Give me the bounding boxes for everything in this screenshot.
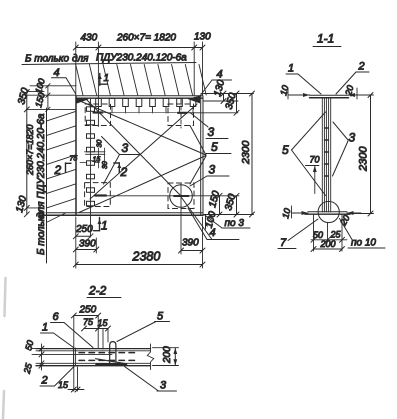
svg-text:260×7= 1820: 260×7= 1820 — [116, 33, 176, 44]
2-2 dim extension verticals — [74, 316, 108, 349]
title 2-2 — [87, 284, 121, 298]
svg-text:Б только: Б только — [25, 54, 69, 65]
panel right edge — [201, 96, 203, 215]
svg-text:20: 20 — [338, 213, 352, 228]
svg-text:6: 6 — [53, 311, 60, 323]
small dims 100 150 top-left — [46, 84, 50, 112]
2-2 gusset wedge — [96, 359, 127, 365]
2-2 label 6 — [51, 311, 94, 348]
svg-text:по 10: по 10 — [351, 238, 376, 249]
svg-text:130: 130 — [194, 32, 211, 43]
1-1 detail circle — [318, 201, 339, 222]
svg-text:260×7=1820: 260×7=1820 — [25, 124, 35, 176]
bottom-right dashed bolt box — [168, 183, 194, 209]
section mark 1 top — [98, 73, 109, 85]
1-1 label 2 — [336, 61, 369, 95]
scan artifact bottom-left upper — [5, 278, 6, 316]
svg-text:4: 4 — [217, 69, 223, 81]
svg-text:ПДУ230.240.120-6а: ПДУ230.240.120-6а — [96, 53, 187, 64]
2-2 left plate end verticals — [74, 348, 76, 366]
svg-text:1: 1 — [101, 219, 108, 233]
circle horizontal centerline — [95, 195, 203, 197]
svg-text:5: 5 — [157, 311, 164, 323]
2-2 hidden bolt dashes — [79, 353, 138, 361]
2-2 label 5 — [117, 311, 170, 342]
top-right box centerline — [180, 99, 182, 128]
diagonal bottom-left box to 5-point — [79, 156, 206, 213]
svg-text:250: 250 — [79, 305, 97, 316]
svg-text:для: для — [72, 54, 89, 65]
1-1 dim 10 left top — [288, 88, 310, 99]
2-2 label 3 — [125, 367, 177, 392]
svg-text:5: 5 — [211, 140, 218, 154]
1-1 label 5 bracket — [282, 112, 326, 196]
2-2 dim 25 — [39, 360, 44, 371]
svg-text:2300: 2300 — [358, 146, 370, 172]
svg-text:390: 390 — [182, 238, 199, 249]
svg-text:25: 25 — [330, 230, 342, 240]
svg-text:4: 4 — [54, 67, 60, 79]
panel top edge — [76, 96, 203, 99]
svg-text:7: 7 — [280, 237, 287, 249]
anchor circle bottom-right — [170, 185, 193, 208]
svg-text:3: 3 — [160, 380, 167, 392]
1-1 label 7 — [278, 219, 318, 249]
left edge plates column — [87, 107, 95, 206]
svg-text:75: 75 — [83, 317, 94, 327]
title 1-1 — [313, 32, 341, 47]
svg-text:3: 3 — [122, 141, 129, 155]
label 3 top-right — [190, 113, 228, 140]
svg-text:50: 50 — [23, 339, 35, 351]
bottom dim 250 — [73, 224, 93, 239]
top plates centerlines — [99, 107, 194, 114]
right top dims 130 350 — [201, 91, 254, 115]
svg-text:350: 350 — [16, 86, 31, 105]
svg-text:2: 2 — [358, 61, 365, 73]
svg-text:1: 1 — [42, 322, 48, 334]
svg-text:15: 15 — [58, 380, 69, 390]
1-1 bottom dim line 10 20 — [292, 206, 362, 218]
left hatch band — [46, 111, 76, 222]
svg-text:200: 200 — [320, 239, 336, 249]
svg-text:390: 390 — [79, 239, 96, 250]
svg-text:10: 10 — [280, 207, 292, 219]
bottom-left dashed bolt box — [85, 183, 111, 207]
label 3 center — [102, 137, 141, 185]
label 5 right — [206, 140, 231, 154]
2-2 dim 50 — [32, 344, 44, 359]
left dim chain 350 1820 130 — [24, 86, 76, 217]
panel bottom edge — [42, 213, 203, 215]
svg-text:15: 15 — [93, 157, 101, 164]
top-left corner weld wedge — [77, 99, 89, 103]
svg-text:2: 2 — [41, 375, 48, 387]
svg-text:430: 430 — [81, 33, 98, 44]
svg-text:30: 30 — [102, 161, 109, 169]
1-1 dim 200 — [311, 239, 345, 252]
svg-text:2300: 2300 — [240, 140, 252, 165]
bottom dim 390 left — [73, 238, 99, 253]
1-1 dim 20 right top — [349, 88, 363, 99]
2-2 beam mid line — [36, 353, 112, 355]
svg-text:2-2: 2-2 — [88, 284, 107, 298]
top note text — [22, 53, 196, 65]
svg-text:30: 30 — [97, 140, 104, 148]
small dims at 4th left plate 75 15 30 30 — [80, 148, 105, 168]
faint weld line across panel — [102, 112, 176, 114]
svg-text:5: 5 — [282, 143, 289, 157]
svg-text:2380: 2380 — [132, 250, 161, 264]
top edge plates row — [96, 99, 196, 107]
right 2300 dimension — [204, 91, 255, 217]
panel left edge — [75, 96, 77, 215]
scan artifact bottom-left lower — [3, 391, 4, 419]
2-2 dim 15 — [58, 367, 84, 392]
svg-text:3: 3 — [208, 125, 215, 139]
svg-text:150: 150 — [207, 189, 222, 208]
label 4 top-left — [52, 67, 76, 94]
top-right corner weld wedge — [189, 96, 200, 102]
long diagonal TL to circle — [86, 99, 181, 196]
label 3 lower-right — [190, 163, 229, 187]
label 4 top-right — [200, 69, 232, 97]
top dimension line 430 260x7 130 — [73, 45, 205, 50]
left plates centerline — [90, 99, 92, 237]
left note vertical line — [46, 108, 48, 263]
svg-text:100: 100 — [33, 77, 47, 94]
svg-text:для ПДУ230.240.20-6а: для ПДУ230.240.20-6а — [36, 113, 47, 218]
1-1 dims 50 25 — [311, 215, 347, 251]
label 4 bottom-right — [182, 198, 240, 240]
svg-text:3: 3 — [209, 163, 216, 177]
bottom dim 390 right — [179, 238, 206, 254]
2-2 beam second line — [36, 350, 151, 352]
1-1 top flange — [310, 95, 349, 98]
2-2 dim 250 — [71, 305, 100, 319]
svg-text:3: 3 — [349, 131, 356, 145]
section mark 2 right — [114, 163, 128, 179]
svg-text:200: 200 — [162, 346, 173, 364]
svg-text:250: 250 — [75, 224, 93, 235]
circle vertical centerline — [180, 184, 182, 254]
2-2 beam top line — [36, 348, 151, 350]
right bottom dims 150 350 100 — [204, 193, 240, 229]
1-1 label 3 bracket — [333, 122, 356, 176]
bottom dim 2380 — [73, 217, 205, 268]
top dim extension lines — [76, 42, 203, 127]
svg-text:70: 70 — [310, 155, 320, 165]
long diagonal BL to TR — [90, 104, 197, 199]
svg-text:по 3: по 3 — [225, 218, 245, 229]
left note text vertical — [36, 113, 47, 255]
top-right box weld dash — [178, 112, 187, 114]
2-2 label 2 — [40, 367, 74, 387]
top-left dashed bolt box — [85, 104, 110, 126]
svg-text:1-1: 1-1 — [317, 32, 334, 46]
2-2 beam bottom lines — [36, 363, 151, 365]
section mark 1 bottom — [94, 218, 108, 233]
svg-text:15: 15 — [98, 318, 109, 328]
2-2 dims 75 15 — [82, 317, 111, 331]
svg-text:25: 25 — [22, 361, 35, 375]
1-1 member bolt ticks — [325, 128, 329, 176]
diagonal bottom-right box to 5-point — [190, 156, 206, 184]
2-2 dim 200 — [153, 348, 179, 366]
diagonal top-right box to 5-point — [190, 126, 206, 156]
svg-text:150: 150 — [33, 91, 47, 108]
1-1 label 1 — [286, 63, 321, 95]
label po 3 — [204, 215, 250, 230]
2-2 label 1 — [41, 322, 74, 348]
svg-text:1: 1 — [288, 63, 294, 75]
2-2 right break zigzag — [147, 344, 153, 370]
1-1 dim 70 — [306, 155, 320, 194]
svg-text:130: 130 — [212, 78, 227, 97]
top hatch band for PDU variant — [76, 65, 207, 96]
1-1 label po 10 — [340, 219, 386, 249]
2-2 channel stub — [110, 342, 116, 363]
section mark 2 left — [54, 163, 72, 177]
diagonal top-left box to 5-point — [77, 100, 207, 156]
top-right dashed bolt box — [168, 104, 194, 126]
1-1 member verticals — [322, 98, 330, 212]
1-1 bottom flange — [305, 212, 350, 215]
1-1 dim 2300 — [350, 93, 374, 217]
weld dash in top-left box — [94, 111, 103, 113]
